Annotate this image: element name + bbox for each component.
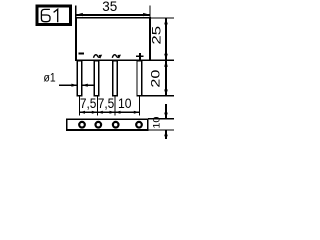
dim 35 arrow right [143, 13, 149, 16]
dim dia line right [82, 84, 93, 86]
mounting strip [67, 119, 148, 130]
chain extension pin2 [96, 96, 98, 115]
extension body bottom [150, 59, 174, 61]
dim 25 arrow top [164, 18, 168, 24]
chain extension pin1 [79, 96, 81, 115]
dim 10 strip line bottom [165, 130, 167, 139]
dim 35 extension left [75, 6, 77, 18]
chain arrows seg2 [97, 111, 103, 114]
dim 25 arrow bottom [164, 54, 168, 60]
svg-text:20: 20 [150, 70, 163, 88]
dim dia arrow right [82, 84, 88, 87]
dim 35 arrow left [76, 13, 82, 16]
dim 20 arrow bottom [164, 90, 168, 96]
strip extension top [148, 118, 174, 120]
dim 35 line [76, 14, 150, 16]
chain arrows seg1 [80, 111, 86, 114]
svg-text:10: 10 [118, 95, 132, 111]
dim 35 extension right [149, 6, 151, 18]
dim 25 line [165, 18, 167, 60]
figure number box 61 [37, 6, 70, 24]
svg-text:7,5: 7,5 [98, 95, 115, 111]
chain extension pin4 [138, 96, 140, 115]
svg-text:7,5: 7,5 [80, 95, 97, 111]
pin 4 [137, 61, 142, 96]
extension pin bottom [142, 95, 174, 97]
chain extension pin3 [114, 96, 116, 115]
svg-text:10: 10 [152, 116, 162, 128]
body outline [76, 18, 150, 60]
dim 25 extension top [150, 17, 174, 19]
hole 3 [113, 122, 119, 128]
pin 1 [77, 61, 82, 96]
chain arrows seg3 [115, 111, 121, 114]
dim 20 line [165, 61, 167, 96]
terminal mark plus [136, 53, 143, 60]
dim 10 strip arrow top [164, 113, 168, 119]
chain dim line [80, 111, 140, 113]
hole 4 [136, 122, 142, 128]
terminal mark minus [78, 53, 83, 55]
svg-text:35: 35 [102, 0, 117, 14]
dim 10 strip arrow bottom [164, 130, 168, 136]
dim dia arrow left [71, 84, 77, 87]
pin 3 [113, 61, 118, 96]
hole 1 [79, 122, 85, 128]
dim 20 arrow top [164, 61, 168, 67]
dim 10 strip line top [165, 104, 167, 118]
terminal mark ac1 [94, 55, 101, 58]
hole 2 [96, 122, 102, 128]
dim dia line left [59, 84, 77, 86]
strip extension bottom [148, 129, 174, 131]
pin 2 [94, 61, 99, 96]
svg-text:25: 25 [151, 26, 164, 45]
terminal mark ac2 [112, 55, 119, 58]
svg-text:ø1: ø1 [44, 72, 56, 85]
